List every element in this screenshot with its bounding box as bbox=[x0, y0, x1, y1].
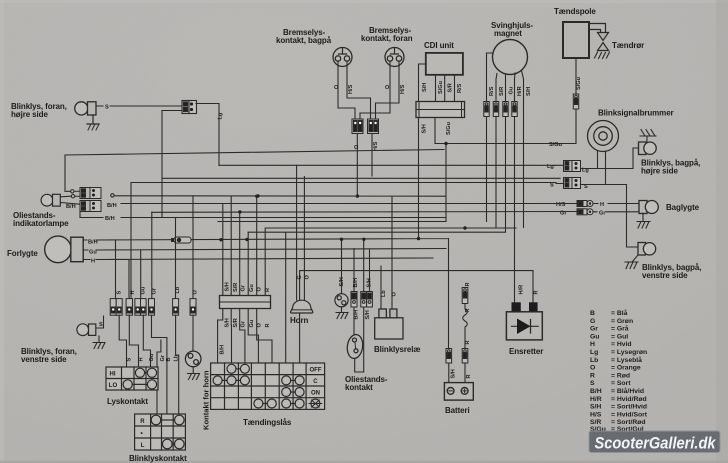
blinklysrelae box with tabs bbox=[375, 309, 403, 339]
wire S to connector bbox=[96, 105, 182, 107]
svg-text:= Grå: = Grå bbox=[611, 325, 629, 333]
svg-text:B: B bbox=[590, 310, 595, 317]
wire bus m3 bbox=[162, 177, 560, 179]
Taendingslaas ignition grid bbox=[211, 363, 325, 409]
CDI unit box bbox=[426, 53, 463, 75]
svg-text:B/H: B/H bbox=[353, 278, 359, 288]
Blinklyskontakt switch grid bbox=[135, 414, 186, 450]
label CDI unit bbox=[424, 41, 454, 50]
wire bus Gu m10 bbox=[96, 249, 446, 299]
svg-text:O: O bbox=[385, 85, 390, 91]
svg-text:R: R bbox=[466, 374, 472, 378]
label Blinklys bagpaa hoejre bbox=[641, 159, 700, 176]
svg-text:= Gul: = Gul bbox=[611, 333, 628, 340]
svg-text:S: S bbox=[590, 380, 595, 387]
svg-text:Gu: Gu bbox=[141, 286, 147, 294]
svg-text:Lb: Lb bbox=[590, 357, 598, 364]
labels above connector row bbox=[117, 286, 199, 294]
wires below magnet connectors bbox=[487, 117, 515, 303]
svg-text:OFF: OFF bbox=[310, 367, 322, 373]
connector bremselys O 2pin bbox=[352, 119, 363, 134]
switch circle SH bbox=[335, 294, 348, 307]
svg-text:H/S: H/S bbox=[373, 141, 379, 151]
wire bus Gr m8a bbox=[152, 211, 577, 214]
svg-text:S/H: S/H bbox=[590, 404, 601, 411]
svg-text:S/Gu: S/Gu bbox=[576, 76, 582, 90]
svg-text:G: G bbox=[297, 275, 303, 279]
svg-text:S/Gu: S/Gu bbox=[549, 142, 563, 148]
label Bremselys kontakt bagpaa bbox=[276, 28, 332, 45]
svg-text:O: O bbox=[257, 323, 263, 328]
svg-text:R: R bbox=[140, 419, 145, 425]
battery R connector lower bbox=[462, 349, 468, 364]
svg-text:Blinklysrelæ: Blinklysrelæ bbox=[374, 345, 420, 354]
svg-text:= Blå: = Blå bbox=[611, 309, 628, 317]
svg-text:S/Gu: S/Gu bbox=[446, 121, 452, 135]
flywheel magnet circle bbox=[493, 40, 528, 75]
fuse squiggle wire R bbox=[463, 304, 468, 334]
wires bremselys to connectors bbox=[338, 61, 399, 119]
buzzer concentric circles bbox=[588, 121, 619, 152]
svg-text:S/H: S/H bbox=[526, 87, 532, 96]
svg-text:S/H: S/H bbox=[422, 124, 428, 133]
connector HS barrel bbox=[577, 201, 593, 207]
svg-text:O: O bbox=[305, 275, 311, 280]
svg-text:= Sort: = Sort bbox=[611, 380, 631, 387]
legend color codes bbox=[590, 309, 648, 433]
svg-text:L: L bbox=[141, 443, 145, 449]
svg-text:Gu: Gu bbox=[149, 353, 155, 361]
svg-text:H: H bbox=[91, 259, 95, 265]
wire m15 bbox=[300, 271, 533, 363]
svg-text:O: O bbox=[590, 365, 595, 372]
svg-text:= Grøn: = Grøn bbox=[611, 318, 633, 325]
wire coil down with SGu connector bbox=[575, 58, 577, 144]
buzzer wires down bbox=[598, 151, 606, 185]
label Blinklys foran hoejre bbox=[11, 102, 67, 119]
svg-text:Gr: Gr bbox=[241, 284, 247, 291]
svg-text:magnet: magnet bbox=[494, 29, 522, 38]
CDI wires to bar bbox=[419, 64, 455, 102]
battery R fuse connector upper bbox=[462, 288, 468, 304]
label Blinklyskontakt bbox=[129, 454, 187, 463]
svg-text:S/H: S/H bbox=[339, 277, 345, 286]
svg-text:= Lyseblå: = Lyseblå bbox=[611, 356, 642, 364]
svg-text:S/H: S/H bbox=[365, 310, 371, 319]
svg-text:O: O bbox=[193, 290, 199, 295]
label Blinklys bagpaa venstre bbox=[642, 263, 701, 280]
svg-text:Gr: Gr bbox=[599, 211, 606, 217]
connector pair Gu bbox=[135, 299, 146, 316]
Lyskontakt switch grid bbox=[106, 367, 158, 390]
connector BH single bbox=[351, 292, 357, 308]
connector Lg 2pin bbox=[564, 161, 581, 172]
label Bremselys kontakt foran bbox=[361, 26, 413, 43]
svg-text:H/S: H/S bbox=[590, 411, 602, 418]
wires below bar with labels bbox=[218, 309, 272, 364]
svg-text:S: S bbox=[99, 322, 103, 328]
svg-text:B/H: B/H bbox=[354, 310, 360, 320]
svg-text:R: R bbox=[265, 323, 271, 327]
svg-text:Lg: Lg bbox=[218, 112, 224, 119]
svg-text:B/H: B/H bbox=[590, 388, 602, 395]
svg-text:Horn: Horn bbox=[290, 316, 308, 325]
svg-text:venstre side: venstre side bbox=[642, 271, 688, 280]
ground under venstre foran bulb bbox=[93, 336, 105, 349]
svg-text:Lb: Lb bbox=[175, 286, 181, 293]
svg-text:O: O bbox=[392, 292, 398, 297]
svg-text:H/R: H/R bbox=[519, 285, 525, 295]
label Horn bbox=[290, 316, 308, 325]
svg-text:H/S: H/S bbox=[556, 202, 566, 208]
bulb oliestands indicator bbox=[41, 194, 60, 206]
magnet connector Gu bbox=[503, 102, 508, 117]
svg-text:S: S bbox=[117, 291, 123, 295]
svg-text:= Orange: = Orange bbox=[611, 365, 641, 372]
svg-text:R: R bbox=[590, 372, 595, 379]
svg-text:Gu: Gu bbox=[509, 86, 515, 94]
svg-text:Tændrør: Tændrør bbox=[612, 41, 644, 50]
oliestandskontakt oval bbox=[346, 334, 364, 360]
ignition coil box bbox=[563, 22, 589, 58]
svg-text:Gr: Gr bbox=[590, 326, 598, 333]
svg-text:B/H: B/H bbox=[107, 203, 117, 209]
svg-text:S/R: S/R bbox=[233, 283, 239, 292]
svg-text:G: G bbox=[590, 318, 595, 325]
label Svinghjulsmagnet bbox=[491, 21, 533, 38]
label Taendspole bbox=[554, 7, 596, 16]
svg-text:H: H bbox=[139, 357, 145, 361]
svg-text:B: B bbox=[166, 357, 172, 361]
svg-text:S/H: S/H bbox=[225, 318, 231, 327]
svg-text:Blinklyskontakt: Blinklyskontakt bbox=[129, 454, 187, 463]
switch bremselys foran bbox=[385, 48, 404, 67]
inline connector on BH line bbox=[172, 237, 192, 243]
svg-text:S/R: S/R bbox=[499, 87, 505, 96]
connector single Lb bbox=[173, 299, 179, 316]
label Batteri bbox=[445, 406, 470, 415]
wire above switch circle bbox=[341, 239, 343, 294]
wire S to venstre bagpaa bulb bbox=[556, 184, 638, 248]
svg-text:kontakt: kontakt bbox=[345, 383, 373, 392]
connector Gr barrel bbox=[577, 209, 593, 215]
connector bremselys HS 2pin bbox=[368, 119, 379, 134]
svg-text:O: O bbox=[334, 85, 339, 91]
ground under horn button bbox=[188, 367, 200, 380]
svg-text:Lyskontakt: Lyskontakt bbox=[107, 397, 148, 406]
bulb blinklys foran hoejre bbox=[75, 102, 96, 115]
svg-text:S: S bbox=[127, 358, 133, 362]
wire stubs forlygte bbox=[83, 240, 90, 260]
svg-text:ScooterGalleri.dk: ScooterGalleri.dk bbox=[595, 435, 717, 453]
wire CN1 lower to left vertical bbox=[162, 111, 182, 218]
label Kontakt for horn vertical bbox=[202, 370, 211, 430]
connector single O bbox=[190, 299, 196, 316]
label Blinklysrelae bbox=[374, 345, 420, 354]
wire S venstre bulb bbox=[96, 316, 104, 328]
svg-text:Gu: Gu bbox=[590, 333, 599, 340]
horn bell bbox=[290, 300, 312, 313]
wires CDI bar top risers bbox=[223, 196, 257, 295]
relay riser wires bbox=[381, 197, 392, 309]
svg-text:Tændingslås: Tændingslås bbox=[243, 418, 292, 427]
wire bus BH m7 bbox=[121, 203, 577, 205]
svg-text:Tændspole: Tændspole bbox=[554, 7, 596, 16]
svg-text:H: H bbox=[600, 202, 604, 208]
svg-text:R: R bbox=[534, 290, 540, 294]
svg-text:Blinksignalbrummer: Blinksignalbrummer bbox=[598, 109, 674, 118]
svg-text:R/S: R/S bbox=[489, 86, 495, 96]
svg-text:R: R bbox=[465, 340, 471, 344]
bulb blinklys bagpaa hoejre bbox=[639, 142, 657, 155]
wires connector row to lyskontakt bbox=[119, 315, 193, 414]
connector oliestands O pair bbox=[71, 188, 101, 199]
horn wires bbox=[297, 165, 305, 300]
svg-text:Gr: Gr bbox=[152, 287, 158, 294]
svg-text:Baglygte: Baglygte bbox=[666, 203, 700, 212]
svg-text:C: C bbox=[313, 379, 318, 385]
svg-text:S/H: S/H bbox=[422, 83, 428, 92]
label Forlygte bbox=[7, 249, 38, 258]
wire m12 bbox=[218, 221, 446, 223]
svg-text:H/R: H/R bbox=[590, 396, 602, 403]
label Taendingslaas bbox=[243, 418, 292, 427]
lighter top/left margins bbox=[0, 0, 728, 3]
svg-text:= Blå/Hvid: = Blå/Hvid bbox=[611, 387, 644, 395]
svg-text:Forlygte: Forlygte bbox=[7, 249, 38, 258]
label Baglygte bbox=[666, 203, 700, 212]
svg-text:H: H bbox=[130, 290, 136, 294]
svg-text:B/H: B/H bbox=[220, 345, 226, 355]
svg-text:Kontakt for horn: Kontakt for horn bbox=[202, 370, 211, 430]
svg-text:Ensretter: Ensretter bbox=[509, 347, 543, 356]
label Oliestandskontakt bbox=[345, 375, 388, 392]
svg-text:R: R bbox=[265, 288, 271, 292]
wire Lg to right bulb bbox=[555, 148, 639, 169]
svg-text:CDI unit: CDI unit bbox=[424, 41, 454, 50]
wire bus S m4 bbox=[131, 183, 556, 299]
bulb blinklys foran venstre bbox=[77, 324, 96, 336]
wire loop under BH connector bbox=[80, 210, 103, 218]
svg-text:B/H: B/H bbox=[105, 216, 115, 222]
wire bus BH2 m8b bbox=[121, 217, 446, 219]
svg-text:LO: LO bbox=[109, 383, 118, 389]
label Blinksignalbrummer bbox=[598, 109, 674, 118]
svg-text:S/R: S/R bbox=[233, 318, 239, 327]
svg-text:S/H: S/H bbox=[367, 278, 373, 287]
wire m14 bbox=[248, 232, 505, 363]
wire bus Lg m2 bbox=[219, 164, 555, 166]
svg-text:O: O bbox=[257, 287, 263, 292]
connector pair S row bbox=[110, 299, 122, 316]
svg-text:H/S: H/S bbox=[348, 84, 354, 94]
watermark ScooterGalleri.dk bbox=[589, 431, 720, 453]
svg-text:= Hvid/Rød: = Hvid/Rød bbox=[611, 396, 647, 403]
svg-text:Gu: Gu bbox=[249, 284, 255, 292]
ground above hoejre bagpaa bulb bbox=[640, 130, 656, 143]
svg-text:R: R bbox=[465, 282, 471, 286]
bulb blinklys bagpaa venstre bbox=[638, 243, 656, 256]
svg-text:indikatorlampe: indikatorlampe bbox=[13, 219, 69, 228]
magnet wires down bbox=[487, 53, 524, 228]
svg-text:R/S: R/S bbox=[457, 83, 463, 93]
svg-text:højre side: højre side bbox=[641, 167, 678, 176]
svg-text:S/H: S/H bbox=[451, 369, 457, 378]
battery wires bbox=[449, 333, 465, 383]
ground under baglygte bbox=[637, 213, 650, 228]
svg-text:Lb: Lb bbox=[381, 290, 387, 297]
magnet connector HR bbox=[512, 102, 517, 117]
svg-text:S/R: S/R bbox=[448, 83, 454, 92]
svg-text:R: R bbox=[465, 308, 471, 312]
batteri box bbox=[444, 383, 473, 401]
svg-text:S: S bbox=[105, 105, 109, 111]
svg-text:kontakt, bagpå: kontakt, bagpå bbox=[276, 36, 332, 45]
forlygte wire labels bbox=[88, 240, 98, 265]
svg-text:kontakt, foran: kontakt, foran bbox=[361, 34, 413, 43]
svg-text:B/H: B/H bbox=[66, 204, 76, 210]
ground under bulb bbox=[87, 115, 99, 124]
svg-text:Lg: Lg bbox=[590, 349, 598, 356]
ground under switch circle bbox=[336, 307, 348, 319]
label Lyskontakt bbox=[107, 397, 148, 406]
switch bremselys bagpaa bbox=[333, 48, 352, 67]
connector single H bbox=[126, 299, 132, 316]
connector single Gr bbox=[149, 299, 155, 316]
svg-text:Gr: Gr bbox=[241, 320, 247, 327]
svg-text:S/Gu: S/Gu bbox=[438, 80, 444, 94]
battery SH wire connector bbox=[446, 349, 452, 364]
svg-text:= Sort/Hvid: = Sort/Hvid bbox=[611, 404, 647, 411]
svg-text:Gu: Gu bbox=[249, 319, 255, 327]
horn button circle bbox=[185, 351, 201, 367]
multi-pin connector bar CDI bbox=[416, 102, 465, 118]
ensretter wire labels bbox=[519, 285, 540, 295]
connector SH pair bbox=[361, 292, 373, 308]
svg-text:Lb: Lb bbox=[174, 354, 180, 361]
ensretter tabs bbox=[512, 302, 538, 312]
wire Lg from CN1 bbox=[196, 104, 219, 166]
bulb baglygte bbox=[639, 201, 658, 214]
svg-text:Batteri: Batteri bbox=[445, 406, 470, 415]
wires around BH SH connectors bbox=[354, 239, 370, 372]
svg-text:S/H: S/H bbox=[225, 282, 231, 291]
svg-text:S: S bbox=[550, 183, 554, 189]
svg-text:= Rød: = Rød bbox=[611, 372, 630, 379]
svg-text:H/S: H/S bbox=[400, 84, 406, 94]
svg-text:højre side: højre side bbox=[11, 110, 48, 119]
wire bus H m11 bbox=[96, 258, 433, 299]
svg-text:= Hvid/Sort: = Hvid/Sort bbox=[611, 411, 648, 418]
bulb forlygte headlight bbox=[45, 236, 84, 263]
multi-pin bar taendingslaas bbox=[220, 296, 271, 309]
wires bulb to connectors bbox=[61, 196, 85, 204]
wires below CDI bar bbox=[419, 118, 577, 239]
svg-text:ON: ON bbox=[311, 391, 320, 397]
svg-text:= Hvid: = Hvid bbox=[611, 341, 632, 348]
wire bus m1 bbox=[65, 150, 444, 192]
connector S 2pin bbox=[564, 178, 581, 189]
wire bus O m6 bbox=[111, 194, 114, 197]
wire m13 bbox=[265, 228, 516, 296]
svg-text:O: O bbox=[354, 145, 359, 151]
spark plug wire and Taendroer bbox=[589, 24, 606, 32]
wire bus BH forlygte m9 bbox=[96, 239, 449, 349]
connector CN1 2pin bbox=[182, 101, 197, 114]
svg-text:venstre side: venstre side bbox=[21, 355, 67, 364]
magnet connector RS bbox=[484, 102, 489, 117]
label Blinklys foran venstre bbox=[21, 347, 77, 364]
connector oliestands BH pair bbox=[80, 201, 101, 212]
labels above lyskontakt bbox=[127, 353, 180, 361]
svg-text:HI: HI bbox=[110, 371, 116, 377]
connector SGu coil bbox=[573, 94, 578, 109]
ensretter box with diode bbox=[506, 312, 542, 340]
svg-text:= Lysegrøn: = Lysegrøn bbox=[611, 349, 647, 356]
ground under venstre bagpaa bulb bbox=[625, 255, 638, 269]
svg-text:H/R: H/R bbox=[517, 86, 523, 96]
svg-text:H: H bbox=[590, 341, 595, 348]
magnet connector SR bbox=[493, 102, 498, 117]
label Ensretter bbox=[509, 347, 543, 356]
wires to baglygte bbox=[593, 204, 639, 212]
label Oliestands-indikatorlampe bbox=[13, 211, 69, 228]
wires below bremselys connectors bbox=[357, 134, 372, 197]
left column risers bbox=[116, 196, 194, 299]
